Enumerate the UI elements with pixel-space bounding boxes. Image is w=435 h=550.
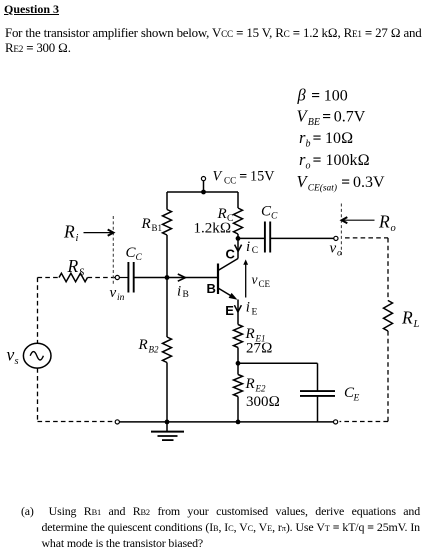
svg-text:o: o (306, 160, 311, 171)
resistor RS (59, 273, 88, 281)
formula ro = 100k ohm (299, 150, 370, 172)
wire bottom rail (120, 421, 334, 423)
svg-text:b: b (306, 139, 311, 150)
svg-text:=: = (311, 88, 320, 105)
svg-text:β: β (297, 86, 307, 105)
svg-text:R: R (67, 256, 79, 276)
svg-text:=: = (313, 152, 322, 169)
svg-text:E2: E2 (255, 384, 266, 394)
node VCC junction (201, 190, 206, 195)
label RC value 1.2k ohm (194, 221, 232, 237)
intro paragraph (5, 26, 422, 56)
svg-text:s: s (15, 356, 19, 367)
arrow iC on collector wire (235, 245, 242, 252)
label Ri (63, 222, 79, 245)
terminal input vin (115, 275, 119, 279)
svg-text:o: o (391, 223, 396, 234)
svg-text:R: R (63, 222, 75, 242)
svg-text:=: = (341, 174, 350, 191)
svg-text:27Ω: 27Ω (246, 341, 273, 357)
label vo (330, 241, 343, 259)
label transistor C (226, 247, 236, 262)
label vin (110, 285, 125, 303)
transistor Q1 emitter lead (218, 288, 238, 300)
label iE (246, 299, 258, 317)
svg-text:100: 100 (324, 88, 348, 105)
label RB2 (138, 337, 159, 355)
svg-text:i: i (76, 233, 79, 244)
question (a) paragraph (21, 504, 420, 550)
svg-text:v: v (252, 272, 258, 287)
label vs (7, 345, 19, 368)
svg-text:0.7V: 0.7V (334, 108, 366, 125)
wire RB2 top lead (166, 278, 168, 338)
wire RB1 bottom to base node (166, 235, 168, 278)
svg-text:B: B (183, 290, 189, 300)
resistor RE1 (234, 325, 243, 348)
svg-text:V: V (213, 168, 224, 184)
label RE2 value 300 ohm (246, 394, 280, 410)
resistor RB1 (163, 210, 172, 236)
node emitter RE junction (236, 361, 241, 366)
svg-text:v: v (110, 285, 117, 301)
label CC output (261, 204, 278, 222)
arrow iE on emitter wire (234, 305, 241, 312)
svg-text:R: R (138, 337, 148, 353)
svg-text:B: B (207, 281, 216, 296)
resistor RC (234, 208, 243, 234)
svg-text:E: E (225, 303, 234, 318)
svg-text:v: v (330, 241, 337, 257)
label iC (246, 239, 258, 256)
formula rb = 10 ohm (299, 128, 353, 150)
arrow Ri (84, 230, 114, 236)
wire RB2 bottom lead (166, 363, 168, 422)
svg-text:S: S (79, 268, 85, 279)
label Ro (378, 212, 396, 235)
node emitter bottom junction (236, 420, 241, 425)
node ground junction (165, 420, 170, 425)
svg-text:R: R (378, 212, 390, 232)
svg-text:C: C (271, 212, 278, 222)
label transistor E (225, 303, 234, 318)
wire collector to CC output (238, 237, 265, 239)
label vCE (252, 272, 271, 289)
wire base (134, 277, 218, 279)
wire dashed RL top lead (387, 238, 389, 301)
wire dashed source top (37, 278, 39, 344)
wire emitter vertical (237, 300, 239, 325)
svg-text:i: i (246, 299, 250, 315)
formula VBE = 0.7V (297, 106, 366, 128)
formula beta = 100 (297, 86, 348, 105)
arrow vCE (243, 259, 248, 297)
label transistor B (207, 281, 216, 296)
svg-text:B2: B2 (149, 345, 159, 355)
node base junction (165, 275, 170, 280)
resistor RE2 (234, 375, 243, 397)
label VCC = 15V (213, 168, 276, 185)
wire RC top lead (237, 192, 239, 208)
capacitor CC output (265, 222, 270, 253)
wire dashed source to RS (38, 277, 60, 279)
resistor RL (384, 301, 393, 332)
wire CE top lead (317, 363, 319, 391)
wire input terminal to CC (120, 277, 129, 279)
wire dashed RL bottom lead (387, 331, 389, 422)
svg-text:V: V (297, 106, 309, 125)
transistor Q1 collector lead (218, 259, 238, 271)
wire RE1 to node (237, 348, 239, 375)
terminal VCC (201, 177, 205, 181)
capacitor CE (300, 391, 335, 396)
svg-text:i: i (177, 283, 181, 299)
wire top rail (167, 191, 238, 193)
source vs (23, 343, 51, 368)
wire dashed bottom left (38, 421, 115, 423)
label RE1 (245, 326, 266, 344)
node collector junction (236, 236, 241, 241)
label RS (67, 256, 86, 279)
svg-text:1.2kΩ: 1.2kΩ (194, 221, 232, 237)
wire CE bottom lead (317, 396, 319, 422)
transistor Q1 base bar (217, 264, 219, 295)
svg-text:B1: B1 (152, 223, 163, 233)
wire CC output to vo terminal (270, 237, 334, 239)
arrow iB on base wire (178, 274, 186, 281)
svg-text:v: v (7, 345, 15, 365)
terminal bottom right (334, 420, 338, 424)
svg-text:R: R (401, 308, 413, 328)
svg-text:V: V (297, 172, 309, 191)
formula VCE(sat) = 0.3V (297, 172, 386, 194)
wire CE branch horizontal (238, 362, 318, 364)
label CC input (126, 245, 143, 263)
label RC (217, 206, 234, 224)
label RE1 value 27 ohm (246, 341, 273, 357)
label RL (401, 308, 420, 331)
label RE2 (245, 376, 266, 394)
wire dashed vo to RL (345, 237, 388, 239)
svg-text:CE: CE (259, 279, 271, 289)
svg-text:BE: BE (308, 117, 320, 128)
svg-text:L: L (413, 319, 420, 330)
ground (151, 422, 184, 440)
label RB1 (141, 216, 163, 233)
svg-text:C: C (136, 253, 143, 263)
svg-text:i: i (246, 239, 250, 255)
wire RB1 top lead (166, 192, 168, 210)
svg-text:300Ω: 300Ω (246, 394, 280, 410)
terminal bottom left (115, 420, 119, 424)
resistor RB2 (163, 337, 172, 363)
svg-text:R: R (245, 376, 255, 392)
svg-text:CE(sat): CE(sat) (308, 183, 337, 194)
svg-text:R: R (141, 216, 151, 232)
wire RE2 bottom lead (237, 397, 239, 422)
svg-text:10Ω: 10Ω (325, 130, 353, 147)
svg-text:C: C (226, 247, 236, 262)
wire collector vertical (237, 238, 239, 258)
heading Question 3 (4, 2, 59, 17)
label CE (344, 385, 360, 404)
svg-text:C: C (252, 246, 258, 256)
svg-text:15V: 15V (250, 168, 275, 184)
measurement line vo dashed (340, 204, 342, 257)
wire RC bottom lead (237, 234, 239, 238)
svg-text:o: o (337, 249, 342, 259)
measurement line Ri dashed (112, 216, 114, 286)
terminal vo (334, 236, 338, 240)
svg-text:E: E (353, 394, 360, 404)
svg-text:in: in (117, 293, 125, 303)
wire dashed RS to input terminal (88, 277, 116, 279)
wire dashed source bottom (37, 368, 39, 421)
svg-text:CC: CC (224, 176, 236, 186)
svg-text:E: E (252, 308, 258, 318)
wire VCC stem (203, 181, 205, 192)
svg-text:=: = (239, 169, 247, 184)
label iB (177, 283, 189, 300)
wire dashed bottom right (340, 421, 389, 423)
svg-text:0.3V: 0.3V (353, 174, 385, 191)
svg-text:100kΩ: 100kΩ (326, 152, 370, 169)
arrow Ro (342, 217, 375, 223)
svg-text:=: = (322, 108, 331, 125)
capacitor CC input (128, 262, 133, 293)
svg-text:=: = (313, 130, 322, 147)
